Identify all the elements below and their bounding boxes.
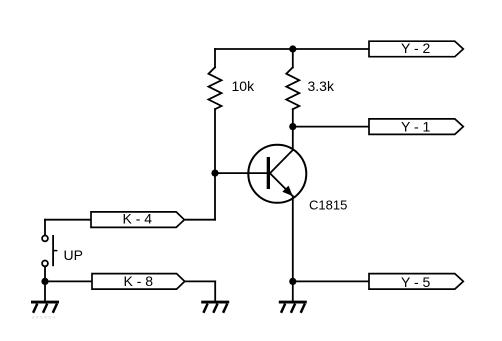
wire K-8 tip right: [185, 280, 216, 282]
wire collector node to Y-1 flag: [293, 126, 369, 128]
wire emitter node to Y-5 flag: [293, 280, 369, 282]
svg-text:C1815: C1815: [309, 198, 347, 213]
flag K-8: [92, 273, 185, 289]
node switch-bottom junction: [41, 278, 48, 285]
switch contact terminal bottom: [42, 261, 48, 267]
svg-text:K - 4: K - 4: [123, 211, 153, 227]
transistor base bar: [267, 157, 270, 189]
flag Y-1: [369, 119, 463, 135]
wire base node down to K-4 row: [214, 173, 216, 220]
transistor emitter stroke: [270, 173, 293, 196]
svg-text:Y - 1: Y - 1: [401, 119, 431, 135]
resistor R2 3.3k: [286, 67, 299, 109]
svg-text:UP: UP: [64, 247, 83, 263]
ground middle: [201, 302, 229, 313]
node base junction: [211, 170, 218, 177]
transistor collector stroke: [270, 150, 293, 173]
svg-text:Y - 2: Y - 2: [401, 40, 431, 56]
wire 10k top lead: [214, 49, 216, 67]
ground left: [31, 302, 59, 313]
wire K-4 tip to vertical: [184, 219, 215, 221]
transistor Q1 C1815: [248, 145, 306, 203]
wire switch bottom to ground node: [44, 267, 46, 282]
wire left down to switch: [44, 220, 46, 236]
switch actuator tick: [53, 250, 57, 252]
switch contact terminal top: [42, 236, 48, 242]
wire 3.3k bottom lead to collector node: [292, 109, 294, 126]
flag Y-2: [369, 40, 463, 57]
wire 10k bottom lead to base node: [214, 109, 216, 173]
svg-text:3.3k: 3.3k: [308, 78, 335, 94]
wire K-4 left: [45, 219, 91, 221]
switch actuator bar: [52, 235, 54, 266]
wire ground node left to K-8: [45, 280, 92, 282]
wire base: [215, 172, 267, 174]
transistor body circle: [248, 145, 306, 203]
svg-text:K - 8: K - 8: [124, 273, 154, 289]
transistor emitter arrow: [282, 186, 293, 197]
wire emitter vertical: [292, 196, 294, 281]
resistor R1 10k: [209, 67, 222, 109]
wire left node down to ground: [44, 281, 46, 300]
wire K-8 right down to ground: [214, 281, 216, 300]
wire top rail: [215, 48, 369, 50]
switch SW1 pushbutton: [42, 235, 57, 266]
svg-text:10k: 10k: [232, 78, 256, 94]
wire collector vertical: [292, 127, 294, 150]
ground right: [279, 302, 307, 313]
flag Y-5: [369, 274, 463, 290]
watermark faint: [32, 316, 56, 319]
node collector junction: [289, 123, 296, 130]
wire 3.3k top lead: [292, 49, 294, 67]
node top junction: [289, 45, 296, 52]
flag K-4: [91, 211, 184, 228]
svg-text:Y - 5: Y - 5: [401, 274, 431, 290]
node emitter junction: [289, 278, 296, 285]
wire emitter node down to ground: [292, 281, 294, 300]
